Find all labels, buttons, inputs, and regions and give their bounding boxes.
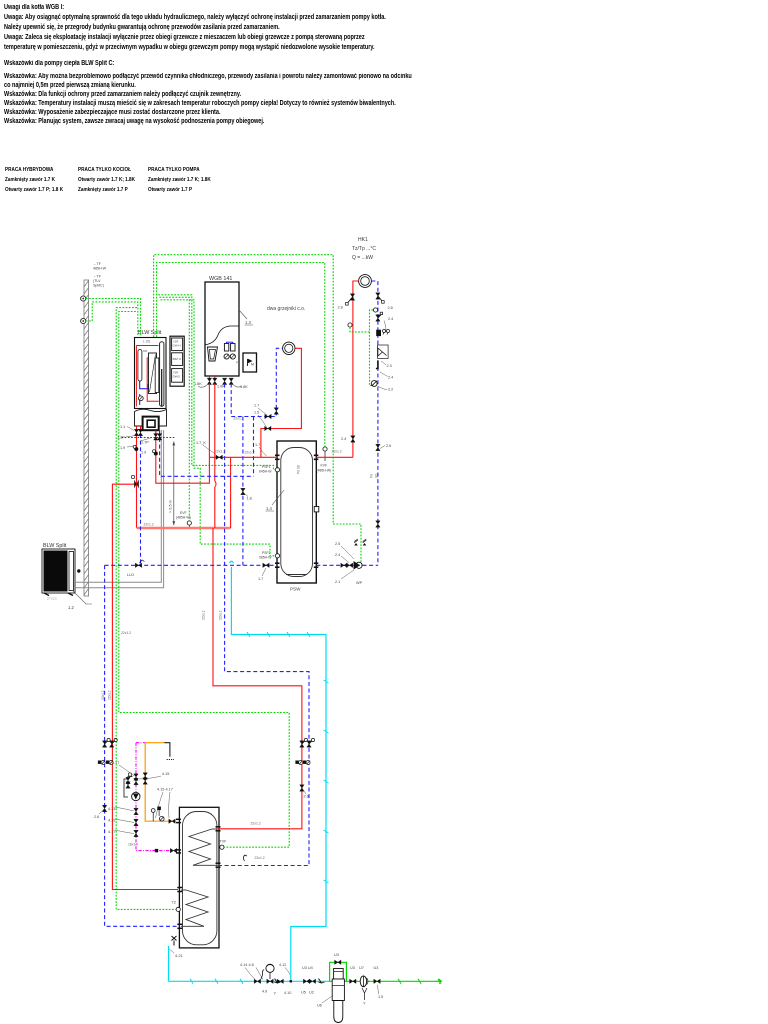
indoor unit lower casing <box>135 409 167 438</box>
pipe red boiler supply <box>209 384 216 529</box>
water meter U7 <box>359 966 368 987</box>
wire green wall sensor lower <box>86 302 138 336</box>
svg-text:22x1.2: 22x1.2 <box>251 822 261 826</box>
valve 2.4 HK1 riser <box>341 436 355 442</box>
sensor PSF1 <box>259 465 280 474</box>
IM module box <box>243 353 257 372</box>
svg-text:U3: U3 <box>350 966 355 970</box>
label 1.4 <box>266 490 285 511</box>
svg-text:22x1.2: 22x1.2 <box>255 856 265 860</box>
svg-text:2.4: 2.4 <box>341 437 346 441</box>
svg-text:Pd SD: Pd SD <box>297 464 301 474</box>
wire green top loop KVF <box>157 263 325 447</box>
svg-text:HK1: HK1 <box>358 237 368 243</box>
mixer valve 2.3 HK1 <box>376 345 392 369</box>
svg-text:4.12: 4.12 <box>279 963 286 967</box>
svg-text:4.19: 4.19 <box>108 819 115 823</box>
pipe red to DHW coil <box>213 528 302 829</box>
svg-text:LLD: LLD <box>127 573 134 577</box>
pipe green bottom main <box>330 980 441 982</box>
svg-text:> 0,5 m: > 0,5 m <box>169 500 173 513</box>
svg-text:22x1.2: 22x1.2 <box>245 451 255 455</box>
strainer Y <box>274 979 281 996</box>
svg-text:22x1.2: 22x1.2 <box>234 417 244 421</box>
svg-text:U3 U4: U3 U4 <box>302 966 313 970</box>
valves U3 U4 <box>301 966 325 995</box>
svg-text:485H-W: 485H-W <box>93 267 107 271</box>
svg-text:1.8K: 1.8K <box>240 385 248 389</box>
svg-text:2.6: 2.6 <box>94 815 99 819</box>
svg-text:1.7: 1.7 <box>258 577 263 581</box>
svg-text:4.17: 4.17 <box>108 830 115 834</box>
valve 1.7 on red upper <box>265 426 271 430</box>
svg-text:4.17: 4.17 <box>112 761 119 765</box>
svg-text:Y: Y <box>274 992 277 996</box>
pipe green filter bypass <box>330 962 347 981</box>
buffer tank PSW 1.4 <box>275 441 319 592</box>
svg-text:4.13: 4.13 <box>108 807 115 811</box>
svg-text:(485H-W): (485H-W) <box>317 469 332 473</box>
svg-text:1.7_K: 1.7_K <box>196 441 206 445</box>
svg-text:ZYCZC: ZYCZC <box>47 597 58 601</box>
sensor KVF <box>317 447 342 473</box>
valve 1.7 on blue upper <box>265 414 271 418</box>
svg-text:Tz/Tp ...°C: Tz/Tp ...°C <box>352 246 376 252</box>
pipe blue heat pump return <box>141 434 254 565</box>
svg-text:4.9: 4.9 <box>262 990 267 994</box>
dimension line >0.5m <box>169 441 176 525</box>
pump 2.2 <box>371 381 393 392</box>
svg-text:MB: MB <box>143 349 147 353</box>
pipe black stub expansion <box>164 743 174 760</box>
pipe magenta circulation <box>136 743 171 851</box>
indoor unit internals <box>136 342 164 407</box>
svg-text:U6: U6 <box>317 1004 322 1008</box>
pipe blue bypass 1.7 <box>243 417 254 566</box>
svg-text:22x1.2: 22x1.2 <box>215 450 225 454</box>
sensor TZ <box>172 901 181 912</box>
ball valves right drain group <box>295 738 314 764</box>
svg-text:1.5: 1.5 <box>378 995 383 999</box>
svg-text:BLW Split: BLW Split <box>43 543 67 549</box>
svg-text:U3: U3 <box>374 966 379 970</box>
HK1 header text <box>352 237 376 261</box>
svg-text:PSF2: PSF2 <box>262 551 271 555</box>
svg-text:EVF: EVF <box>180 511 187 515</box>
boiler connection stubs + 1.8K valves <box>194 376 248 389</box>
safety group on orange <box>151 807 175 824</box>
svg-text:4.14 4.8: 4.14 4.8 <box>240 963 254 967</box>
svg-text:dwa grzejniki c.o.: dwa grzejniki c.o. <box>267 306 305 312</box>
pipe blue radiator branch <box>231 348 282 416</box>
valve 2.4 actuator HK1 <box>376 312 394 332</box>
svg-text:1.2: 1.2 <box>68 605 74 610</box>
svg-text:←TF: ←TF <box>93 275 102 279</box>
valve U3 after filter <box>350 966 356 984</box>
wire green to TZ sensor <box>116 308 176 910</box>
svg-text:(485H-W): (485H-W) <box>176 516 191 520</box>
wire green to TVF sensor <box>119 312 289 848</box>
svg-text:1.7: 1.7 <box>254 404 259 408</box>
note block boiler WGB <box>4 3 386 54</box>
label 1.3 boiler <box>239 310 253 325</box>
svg-text:1.8K: 1.8K <box>194 382 202 386</box>
valves 4.14 4.8 <box>240 963 263 984</box>
svg-text:2.8: 2.8 <box>388 306 393 310</box>
svg-text:2.4: 2.4 <box>388 317 393 321</box>
wire green top loop supply <box>154 255 361 562</box>
cyan flow ticks <box>190 632 329 984</box>
svg-text:22x1.2: 22x1.2 <box>219 610 223 620</box>
wire green HK1 mixer sensors <box>350 310 373 386</box>
svg-text:KVF: KVF <box>321 464 328 468</box>
valve 1.7 PSW bottom <box>258 563 269 581</box>
valve U3 end <box>362 966 383 1006</box>
ball valves left drain group <box>98 738 117 764</box>
svg-text:18x1.0: 18x1.0 <box>128 843 138 847</box>
valve 2.6 on red drop right <box>300 785 309 799</box>
svg-text:2.1: 2.1 <box>335 580 340 584</box>
pipe blue HK1 return <box>371 281 378 565</box>
label 18x1.0 magenta <box>128 843 138 847</box>
svg-text:M: M <box>251 363 254 367</box>
rotated pipe labels near HK1 return <box>370 473 379 478</box>
svg-text:2.4: 2.4 <box>388 376 393 380</box>
pipe red heat pump supply <box>112 431 209 890</box>
valve 1.9b small <box>133 445 158 455</box>
pipe blue low main <box>105 565 277 926</box>
WP pump group <box>335 539 366 585</box>
sensor TVF <box>220 840 228 850</box>
note block heat pump BLW Split C <box>4 59 114 69</box>
svg-text:22x1.2: 22x1.2 <box>144 523 154 527</box>
expansion line dashed <box>122 436 176 438</box>
svg-text:1.1: 1.1 <box>120 425 125 429</box>
pipe orange DHW <box>145 743 174 822</box>
svg-text:1.7: 1.7 <box>255 443 260 447</box>
svg-text:2.2: 2.2 <box>388 388 393 392</box>
magenta junction <box>155 848 177 852</box>
svg-text:TVF: TVF <box>220 840 228 844</box>
refrigerant pipes (outdoor-indoor) <box>75 430 164 588</box>
outdoor unit BLW Split 1.2 <box>42 543 92 610</box>
valve 1.9 on red drop <box>131 475 139 488</box>
svg-text:←TF: ←TF <box>93 262 102 266</box>
svg-text:U3: U3 <box>334 953 339 957</box>
valve 1.8 on blue <box>241 488 252 500</box>
svg-text:2.5: 2.5 <box>335 542 340 546</box>
svg-text:22x1.2: 22x1.2 <box>121 631 131 635</box>
svg-text:2.6: 2.6 <box>386 444 391 448</box>
svg-text:L 15L: L 15L <box>143 340 151 344</box>
wire green to PSF2 <box>161 300 276 556</box>
circulation pump group 4.x <box>108 761 169 837</box>
valve on blue radiator drop <box>274 408 278 414</box>
filter U6 <box>317 953 344 1023</box>
svg-text:WGB 141: WGB 141 <box>209 276 232 282</box>
HK1 pump <box>359 275 372 288</box>
svg-text:1.9: 1.9 <box>141 451 146 455</box>
valves 1.1 1.2P below unit <box>117 425 162 455</box>
sensor on red HK1 <box>348 323 352 327</box>
valve 2.4 below mixer <box>380 372 393 380</box>
svg-text:PSW: PSW <box>290 587 301 592</box>
svg-text:BIM O: BIM O <box>173 357 182 361</box>
svg-text:BLW Split: BLW Split <box>138 330 162 336</box>
svg-text:2.4: 2.4 <box>335 553 340 557</box>
DHW tank with coils <box>176 807 221 948</box>
valve 2.6 HK1 return <box>376 444 392 451</box>
valve 4.21 tank bottom <box>168 936 184 958</box>
svg-text:645H-W: 645H-W <box>259 470 272 474</box>
valve 2.6 bottom right <box>376 521 380 527</box>
svg-text:1.5: 1.5 <box>254 411 259 415</box>
radiator pump circle <box>283 342 295 354</box>
boiler WGB 141 <box>205 276 239 376</box>
pump 4.9 <box>261 964 274 993</box>
svg-text:U5: U5 <box>301 991 306 995</box>
labels 1.7 cluster <box>254 404 260 448</box>
svg-text:P: P <box>236 361 238 365</box>
svg-text:TZ: TZ <box>172 901 177 905</box>
wire green to PSF1 <box>158 295 275 470</box>
valve 1.7 K on red <box>196 441 222 459</box>
svg-text:4.10: 4.10 <box>284 991 291 995</box>
svg-text:1.3: 1.3 <box>245 320 251 325</box>
pipe red to PSW top <box>209 457 353 528</box>
svg-text:U7: U7 <box>359 966 364 970</box>
valve position table: PRACA HYBRYDOWA <box>5 165 63 195</box>
svg-text:SplitC): SplitC) <box>93 284 104 288</box>
svg-text:Q = ...kW: Q = ...kW <box>352 255 373 261</box>
svg-text:22x1.2: 22x1.2 <box>108 690 112 700</box>
label TF 485H-W <box>93 262 107 271</box>
rotated pipe labels <box>101 464 301 700</box>
valve 4.10 <box>277 963 291 995</box>
valve on blue left drop <box>94 805 107 819</box>
svg-text:DWG: DWG <box>173 375 181 379</box>
svg-text:WP: WP <box>356 581 363 585</box>
valve LLD on blue <box>127 560 145 577</box>
svg-text:GW-H: GW-H <box>172 344 180 348</box>
svg-text:4.15 4.17: 4.15 4.17 <box>157 788 173 792</box>
svg-text:U2: U2 <box>309 991 314 995</box>
pipe red radiator branch <box>261 348 302 457</box>
valve 2.8 on red <box>338 294 355 310</box>
pipe blue boiler return long <box>218 384 309 866</box>
svg-text:Pd: Pd <box>370 474 374 478</box>
svg-text:2.8: 2.8 <box>338 306 343 310</box>
label 2.4 on red <box>0 0 1 1</box>
svg-text:1.7P: 1.7P <box>141 441 149 445</box>
wall sensor TF upper <box>81 296 86 301</box>
svg-text:(TLV: (TLV <box>93 279 101 283</box>
mixer motor block HK1 <box>376 330 389 337</box>
wall (hatched) <box>84 280 89 596</box>
pipe blue PSW to WP <box>316 564 378 566</box>
valve position table: PRACA TYLKO KOCIOL <box>78 165 135 195</box>
sensor PSF2 <box>259 551 280 560</box>
sensor EVF <box>176 511 191 529</box>
label TF TLV SplitC <box>93 275 104 288</box>
pipe red thick common <box>137 527 231 529</box>
wall sensor TF lower <box>81 318 86 323</box>
green flow ticks bottom <box>398 979 442 984</box>
indoor unit BLW Split <box>135 330 167 409</box>
wire green to EVF <box>159 297 189 521</box>
svg-text:2.3: 2.3 <box>387 364 392 368</box>
junction dot <box>290 980 292 982</box>
svg-text:Y: Y <box>363 1002 366 1006</box>
svg-text:2.6: 2.6 <box>304 795 309 799</box>
svg-text:1.0K: 1.0K <box>217 385 225 389</box>
svg-text:4.15: 4.15 <box>162 772 169 776</box>
air vent on blue near tank <box>244 855 248 861</box>
pipe cyan cold water riser <box>231 567 326 981</box>
hop bump red over blue at 565 <box>230 561 234 563</box>
pipe cyan tank drain <box>168 946 170 981</box>
wire green wall sensor upper <box>86 299 141 337</box>
valve position table: PRACA TYLKO POMPA <box>148 165 211 195</box>
valves 4.15 4.17 at orange <box>143 773 173 818</box>
pipe labels 22x1.2 <box>121 417 265 861</box>
svg-text:1.2P: 1.2P <box>117 436 125 440</box>
pipe red HK1 riser <box>353 281 359 457</box>
svg-text:22x1.2: 22x1.2 <box>101 690 105 700</box>
svg-text:SD: SD <box>375 473 379 478</box>
svg-text:1.4: 1.4 <box>266 506 272 511</box>
svg-text:1.9: 1.9 <box>120 446 125 450</box>
svg-text:1.8: 1.8 <box>247 497 252 501</box>
valve 2.8 on blue <box>376 293 393 310</box>
sensor on blue HK1 <box>373 308 377 312</box>
svg-text:22x1.2: 22x1.2 <box>202 610 206 620</box>
pipe cyan bottom main <box>169 980 330 982</box>
svg-text:4.21: 4.21 <box>175 953 184 958</box>
ISR control boxes <box>170 336 184 386</box>
